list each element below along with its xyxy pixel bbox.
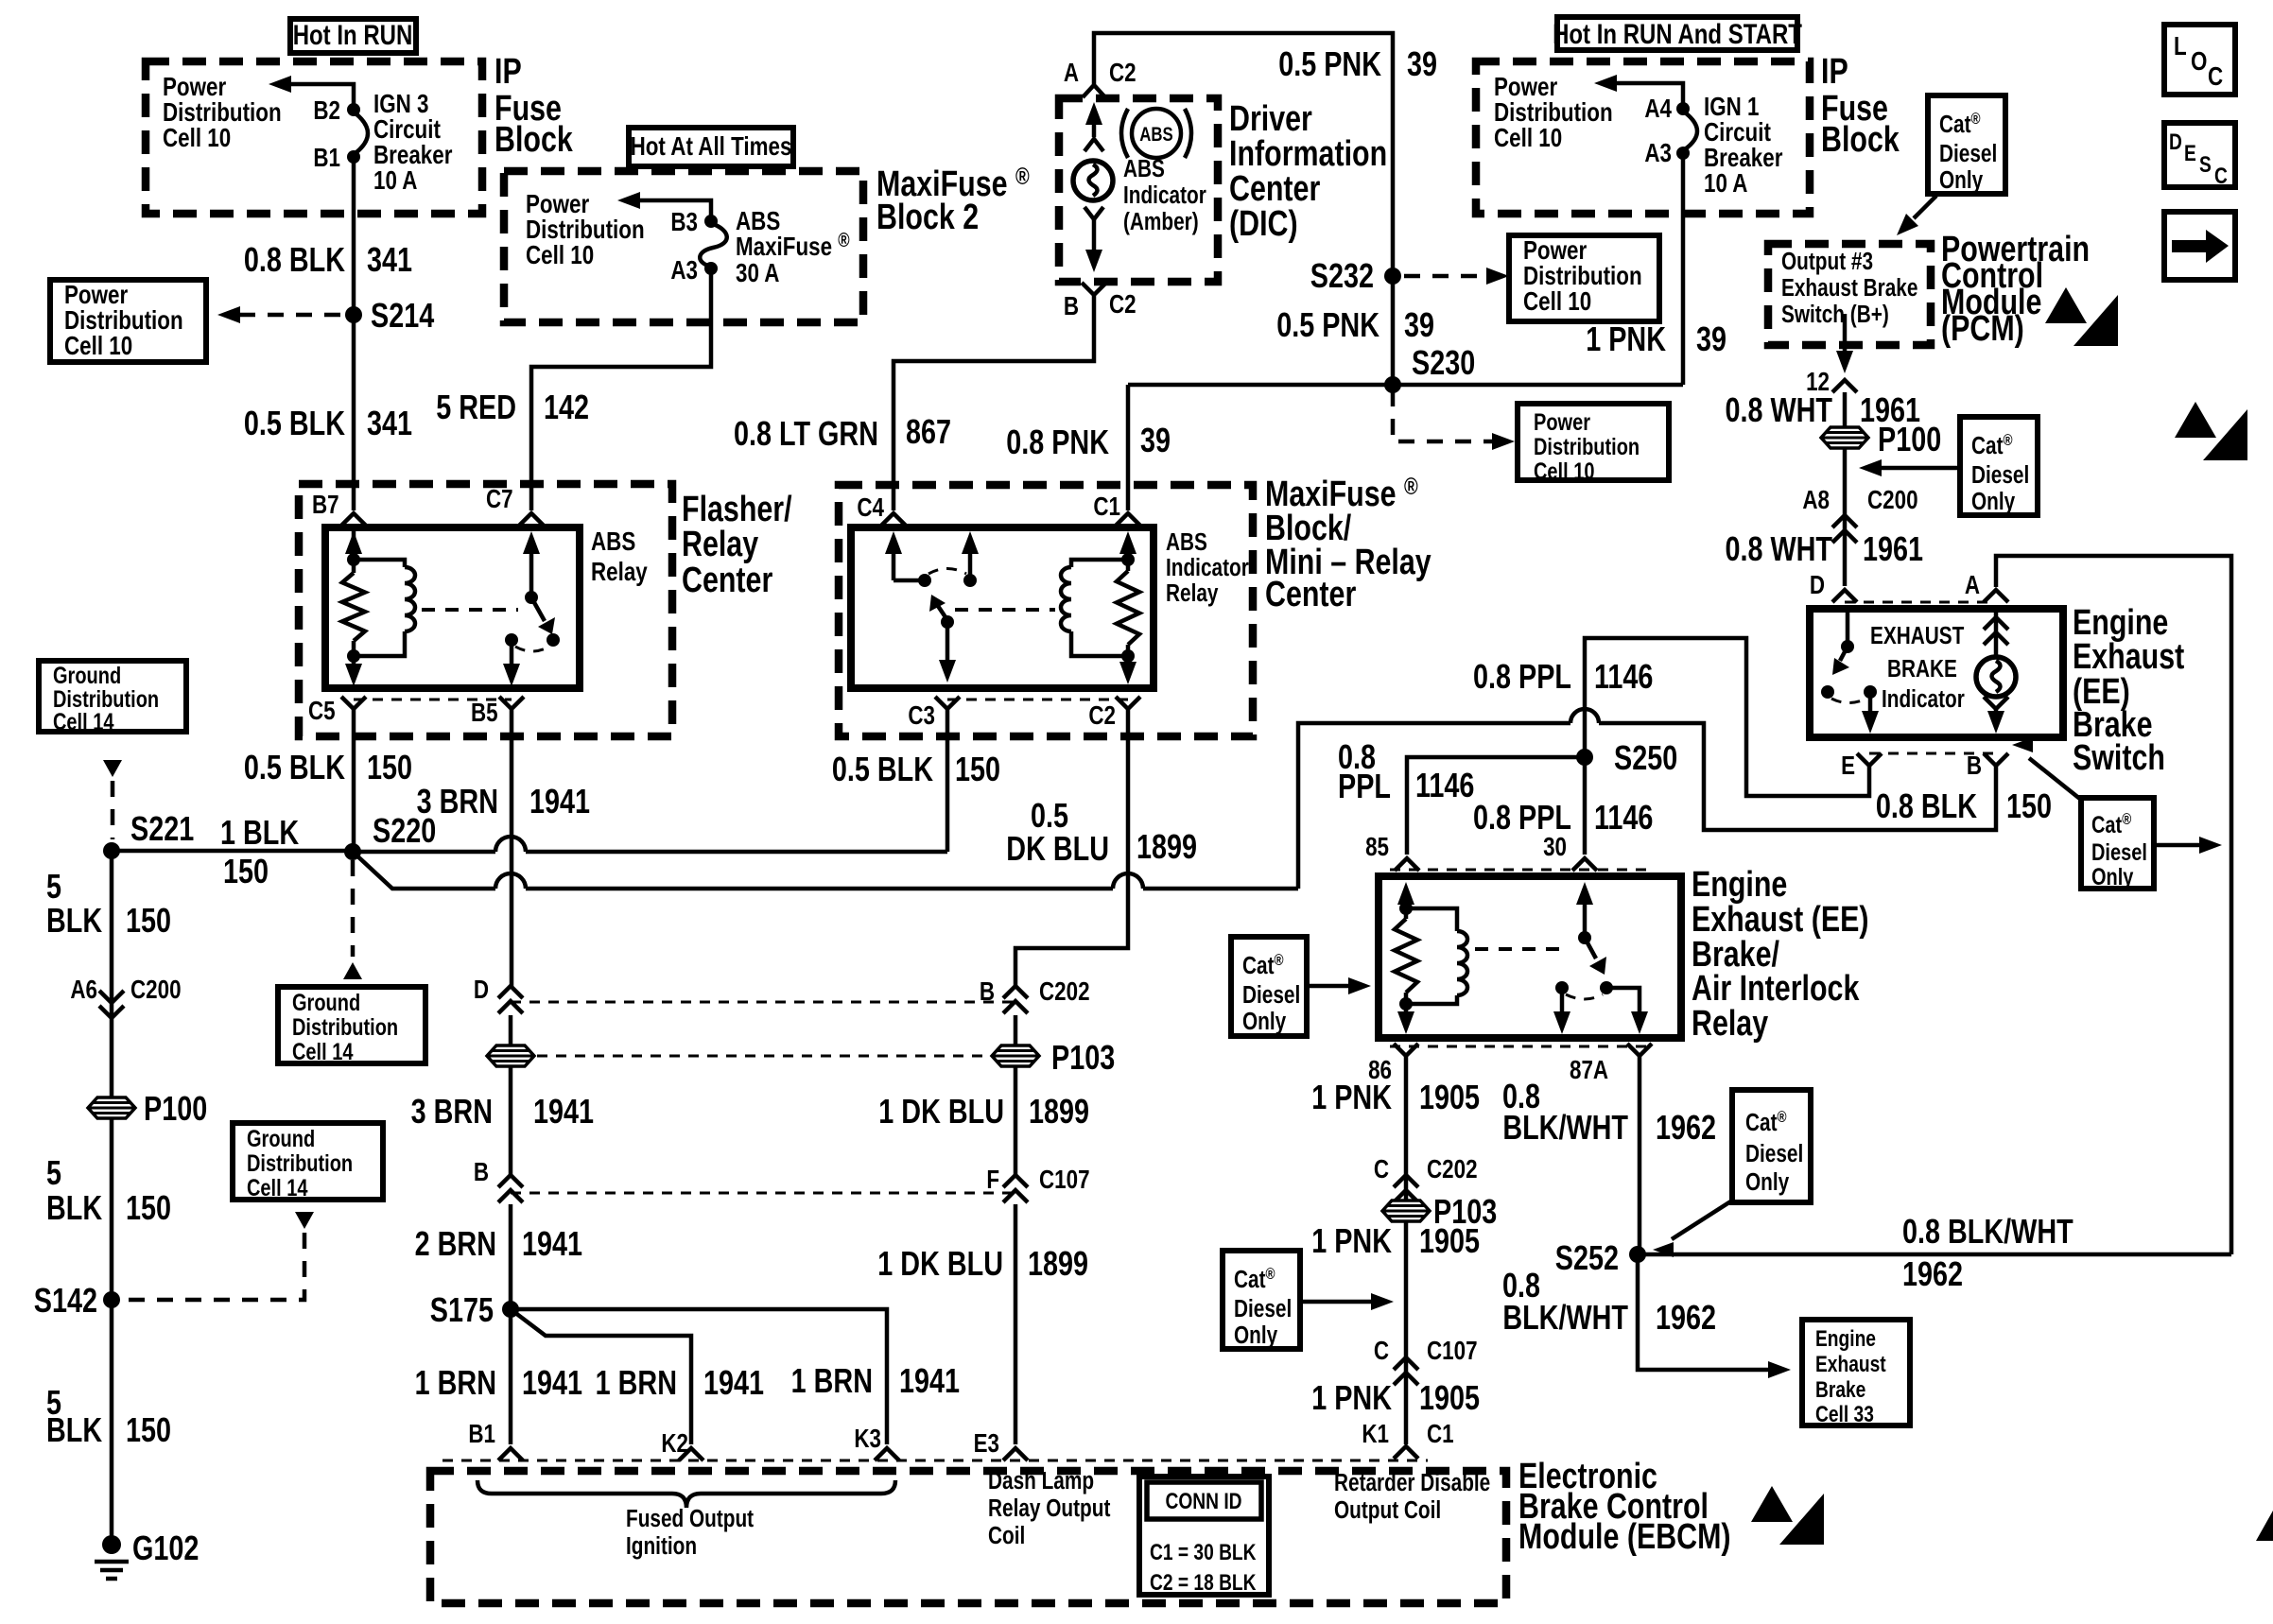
- svg-text:Center: Center: [682, 561, 772, 600]
- svg-text:A3: A3: [1644, 139, 1672, 168]
- svg-text:P100: P100: [144, 1089, 207, 1128]
- svg-text:B1: B1: [468, 1420, 495, 1449]
- label 1 DK BLU 1899 (upper): [878, 1092, 1089, 1131]
- svg-text:Brake: Brake: [1815, 1376, 1865, 1403]
- label 0.5 BLK 150 (C3): [832, 750, 1000, 788]
- svg-text:C1: C1: [1093, 492, 1120, 522]
- svg-text:Switch (B+): Switch (B+): [1781, 301, 1889, 328]
- svg-text:CONN ID: CONN ID: [1165, 1488, 1241, 1514]
- DIC input terminal: [1084, 139, 1103, 151]
- svg-text:Diesel: Diesel: [2091, 839, 2147, 866]
- svg-text:Driver: Driver: [1229, 99, 1312, 139]
- svg-text:A3: A3: [670, 256, 698, 285]
- mini relay coil: [1061, 560, 1128, 656]
- svg-text:Module (EBCM): Module (EBCM): [1518, 1517, 1731, 1557]
- wire A3 down to C7 (ckt 142): [531, 268, 711, 510]
- label 1 DK BLU 1899 (lower): [877, 1244, 1088, 1283]
- PCM dashed box (Output #3 Exhaust Brake Switch): [1768, 244, 1931, 345]
- svg-text:341: 341: [367, 240, 412, 279]
- svg-text:E: E: [1841, 752, 1855, 781]
- mini relay switch input arrow (C4): [885, 531, 925, 580]
- svg-text:0.8 PPL: 0.8 PPL: [1473, 657, 1571, 696]
- svg-text:Relay Output: Relay Output: [988, 1494, 1111, 1522]
- svg-text:ABS: ABS: [1139, 124, 1172, 146]
- svg-text:Dash Lamp: Dash Lamp: [988, 1467, 1094, 1494]
- svg-text:Only: Only: [1939, 166, 1983, 194]
- svg-text:0.5 BLK: 0.5 BLK: [244, 404, 346, 442]
- svg-text:C5: C5: [308, 697, 336, 726]
- switch second contact: [963, 574, 977, 587]
- title IP Fuse Block (left): [495, 52, 574, 160]
- svg-text:Only: Only: [2091, 864, 2134, 890]
- svg-text:1941: 1941: [529, 782, 590, 821]
- svg-text:Switch: Switch: [2073, 738, 2165, 778]
- label 0.8 WHT 1961 (upper): [1725, 390, 1920, 429]
- svg-text:1 PNK: 1 PNK: [1311, 1078, 1392, 1116]
- MaxiFuse Block/Mini-Relay Center dashed box: [839, 485, 1253, 736]
- dashed wire to S221: [111, 781, 115, 839]
- splice S232: [1310, 256, 1401, 295]
- svg-text:3 BRN: 3 BRN: [411, 1092, 493, 1131]
- wire P103 down to pin B (ckt 1941): [509, 1066, 513, 1178]
- svg-text:1 PNK: 1 PNK: [1311, 1221, 1392, 1260]
- pointer Cat box to S252: [1653, 1201, 1732, 1257]
- splice S250: [1576, 738, 1677, 777]
- svg-text:1 BRN: 1 BRN: [415, 1363, 496, 1402]
- svg-text:1 BRN: 1 BRN: [596, 1363, 677, 1402]
- wire from A4 to Power Distribution (arrow): [1594, 75, 1683, 109]
- hop over ckt 1941 (lower bus): [495, 873, 526, 889]
- label ABS Indicator (Amber): [1123, 155, 1206, 235]
- pin A / conn C2 (DIC): [1064, 59, 1136, 97]
- svg-text:1 BLK: 1 BLK: [220, 813, 300, 852]
- svg-text:C1 = 30 BLK: C1 = 30 BLK: [1150, 1539, 1257, 1565]
- Electronic Brake Control Module dashed box: [430, 1471, 1506, 1603]
- svg-text:A8: A8: [1802, 486, 1830, 515]
- interlock switch moving contact: [1600, 981, 1613, 994]
- svg-text:Engine: Engine: [1815, 1325, 1876, 1352]
- svg-text:BLK: BLK: [46, 1188, 103, 1227]
- label Power Distribution Cell 10 (in IP fuse block): [163, 73, 282, 153]
- svg-text:Cell 33: Cell 33: [1815, 1401, 1874, 1427]
- coil output arrow to 86: [1397, 1004, 1414, 1034]
- hop over ckt 1941: [495, 837, 526, 852]
- svg-text:C: C: [1374, 1337, 1389, 1366]
- wire S175 to K3: [511, 1309, 887, 1444]
- svg-text:1941: 1941: [522, 1363, 582, 1402]
- svg-text:1146: 1146: [1415, 766, 1474, 804]
- wire S252 right to ckt 1962 riser: [1638, 1253, 2231, 1257]
- DIC output arrow down: [1085, 219, 1102, 272]
- svg-text:Hot In RUN And START: Hot In RUN And START: [1553, 17, 1802, 49]
- connector line E-B: [1869, 752, 1996, 755]
- switch output to E: [1862, 692, 1879, 734]
- PCM output arrow down: [1836, 314, 1853, 373]
- svg-text:85: 85: [1365, 833, 1389, 862]
- switch output arrow down to B5: [503, 640, 520, 686]
- conn C202 pin B: [980, 977, 1090, 1013]
- svg-text:1899: 1899: [1029, 1092, 1089, 1131]
- svg-text:Exhaust: Exhaust: [1815, 1351, 1886, 1377]
- pin B7: [312, 491, 366, 526]
- pin C1: [1093, 492, 1140, 526]
- svg-text:Exhaust Brake: Exhaust Brake: [1781, 274, 1917, 302]
- wire S250 to pin 85: [1407, 757, 1585, 855]
- IP Fuse Block (right) dashed box: [1476, 61, 1810, 214]
- svg-text:10 A: 10 A: [1704, 169, 1747, 199]
- label 0.8 WHT 1961 (lower): [1725, 529, 1923, 568]
- ground bus S220 to EE switch B (lower): [353, 852, 495, 889]
- svg-text:1146: 1146: [1594, 798, 1653, 837]
- svg-text:B: B: [1967, 752, 1982, 781]
- svg-text:C200: C200: [1867, 486, 1918, 515]
- svg-text:BLK: BLK: [46, 901, 103, 940]
- label Output #3 Exhaust Brake Switch (B+): [1781, 248, 1917, 328]
- conn C107 pin F: [986, 1166, 1089, 1202]
- splice S142: [34, 1281, 120, 1320]
- svg-text:D: D: [2169, 129, 2182, 155]
- svg-text:Ignition: Ignition: [626, 1532, 697, 1560]
- label 0.8 PPL 1146 (upper): [1473, 657, 1653, 696]
- svg-text:C2: C2: [1109, 59, 1136, 88]
- svg-text:E3: E3: [974, 1429, 999, 1459]
- svg-text:Relay: Relay: [682, 525, 758, 564]
- MaxiFuse Block 2 dashed box: [504, 171, 863, 322]
- svg-text:B: B: [980, 977, 995, 1007]
- label IGN 1 Circuit Breaker 10 A: [1704, 93, 1783, 199]
- svg-text:A4: A4: [1644, 95, 1672, 124]
- svg-text:S142: S142: [34, 1281, 97, 1320]
- pin 86: [1368, 1044, 1418, 1085]
- wire B down to P103: [1014, 1015, 1018, 1045]
- title Engine Exhaust (EE) Brake/Air Interlock Relay: [1692, 865, 1868, 1044]
- svg-text:C: C: [1374, 1155, 1389, 1184]
- label 0.5 DK BLU 1899: [1006, 796, 1197, 868]
- splice S252: [1555, 1238, 1646, 1277]
- svg-text:0.8 LT GRN: 0.8 LT GRN: [734, 414, 878, 453]
- svg-text:ABS: ABS: [1123, 155, 1165, 182]
- svg-text:1905: 1905: [1419, 1378, 1480, 1417]
- title Electronic Brake Control Module (EBCM): [1518, 1457, 1731, 1557]
- svg-text:Distribution: Distribution: [292, 1014, 398, 1041]
- label Power Distribution Cell 10 (in right IP fuse block): [1494, 73, 1613, 153]
- label 0.8 BLK 341: [244, 240, 412, 279]
- svg-text:0.8 WHT: 0.8 WHT: [1725, 390, 1832, 429]
- label ABS Relay: [591, 527, 648, 587]
- header box Hot In RUN: [290, 18, 416, 53]
- svg-text:1941: 1941: [533, 1092, 594, 1131]
- svg-text:C202: C202: [1039, 977, 1090, 1007]
- wire P103 down to pin F: [1014, 1066, 1018, 1178]
- svg-text:Fused Output: Fused Output: [626, 1505, 754, 1532]
- connector line EBCM C1/C2: [442, 1460, 1428, 1462]
- wire 87A down to S252 (ckt 1962): [1638, 1056, 1642, 1254]
- node coil bottom: [1399, 997, 1413, 1011]
- hop over ckt 1899: [1113, 873, 1143, 889]
- exhaust brake indicator lamp input terminal: [1984, 613, 2008, 656]
- label ABS Indicator Relay: [1166, 528, 1249, 607]
- pin A3 (IGN1): [1644, 139, 1690, 168]
- label Fused Output Ignition: [626, 1505, 754, 1560]
- arrow Cat box to ckt 1905: [1300, 1293, 1394, 1310]
- wire A3 down to bus (ckt 39): [1681, 153, 1686, 385]
- ref box Ground Distribution Cell 14 (lower): [233, 1123, 383, 1201]
- label 1 PNK 1905 (upper): [1311, 1078, 1480, 1116]
- svg-text:Ground: Ground: [53, 663, 121, 689]
- forward arrow box: [2164, 212, 2235, 280]
- pin B1: [313, 144, 360, 173]
- svg-text:1 PNK: 1 PNK: [1586, 320, 1666, 358]
- label Retarder Disable Output Coil: [1334, 1469, 1490, 1524]
- connector line C107 (B-F): [511, 1192, 1015, 1195]
- ref box Cat Diesel Only (ckt 1905): [1223, 1251, 1300, 1349]
- svg-text:P100: P100: [1878, 420, 1941, 458]
- interlock relay coil: [1406, 908, 1467, 1004]
- svg-text:Cell 10: Cell 10: [526, 241, 594, 270]
- svg-text:0.5 PNK: 0.5 PNK: [1276, 305, 1379, 344]
- pass-through P103 (ckt 1905): [1382, 1192, 1497, 1231]
- title MaxiFuse Block/Mini-Relay Center: [1265, 474, 1431, 614]
- label 5 BLK 150 (lower): [46, 1383, 171, 1449]
- label EXHAUST BRAKE Indicator: [1870, 622, 1965, 713]
- stationary contact arrow down: [1553, 988, 1570, 1034]
- label 0.5 BLK 150: [244, 748, 412, 786]
- svg-text:Diesel: Diesel: [1971, 461, 2029, 489]
- pin C5: [308, 697, 366, 726]
- PCM output terminal pin 12: [1806, 368, 1857, 397]
- title Engine Exhaust (EE) Brake Switch: [2073, 603, 2185, 778]
- svg-text:1899: 1899: [1136, 827, 1197, 866]
- conn C107 pin C: [1374, 1337, 1478, 1385]
- svg-text:O: O: [2191, 47, 2207, 77]
- svg-text:C1: C1: [1427, 1420, 1454, 1449]
- svg-text:Block: Block: [1821, 120, 1900, 160]
- ref box Power Distribution Cell 10 (lower right): [1518, 404, 1669, 485]
- svg-text:1905: 1905: [1419, 1078, 1480, 1116]
- svg-text:1146: 1146: [1594, 657, 1653, 696]
- svg-text:Indicator: Indicator: [1123, 181, 1206, 209]
- svg-text:0.5 PNK: 0.5 PNK: [1278, 44, 1381, 83]
- wire E to S250 (ckt 1146): [1585, 638, 1869, 855]
- svg-text:150: 150: [126, 901, 171, 940]
- svg-text:150: 150: [126, 1410, 171, 1449]
- switch common from D: [1841, 613, 1854, 653]
- relay linkage (dashed): [422, 608, 518, 612]
- switch arm contact node: [941, 615, 954, 629]
- LOC box: [2164, 25, 2235, 95]
- DESC box: [2164, 123, 2235, 189]
- relay switch arm input (C7 side, arrow up): [523, 531, 540, 597]
- svg-text:1962: 1962: [1656, 1108, 1716, 1147]
- svg-text:D: D: [1810, 571, 1825, 600]
- svg-text:Only: Only: [1971, 488, 2015, 515]
- mini relay linkage (dashed): [955, 608, 1055, 612]
- pin B3: [670, 208, 718, 237]
- lamp output terminal and arrow: [1984, 697, 2008, 734]
- brace Fused Output Ignition: [477, 1480, 895, 1508]
- svg-text:EXHAUST: EXHAUST: [1870, 622, 1965, 649]
- arrow Cat box to interlock relay: [1307, 977, 1371, 994]
- interlock switch arm: [1585, 938, 1606, 975]
- svg-text:Center: Center: [1229, 169, 1320, 209]
- svg-text:Cell 14: Cell 14: [247, 1175, 308, 1201]
- label 1 PNK 39: [1586, 320, 1726, 358]
- title MaxiFuse (R) Block 2: [876, 164, 1030, 237]
- pin C3: [908, 697, 960, 731]
- wire S221 down to G102 (ckt 150): [110, 851, 114, 1545]
- splice S220: [344, 811, 436, 860]
- switch output arrow to C3: [939, 622, 956, 682]
- arrow Cat box to pin B wire: [2012, 737, 2081, 800]
- label 0.8 PPL 1146 (pin 30): [1473, 798, 1653, 837]
- svg-text:Hot In RUN: Hot In RUN: [293, 18, 413, 50]
- svg-text:Indicator: Indicator: [1166, 554, 1249, 581]
- connector line 85-30: [1390, 869, 1650, 872]
- fuse ABS MaxiFuse 30 A (S-curve): [700, 223, 727, 267]
- label 1 BRN 1941 (K2): [596, 1363, 764, 1402]
- mini relay switch arm: [929, 595, 947, 620]
- ref box Cat Diesel Only (PCM): [1928, 95, 2005, 194]
- svg-text:Center: Center: [1265, 575, 1356, 614]
- node: coil bottom: [347, 649, 360, 663]
- svg-text:1899: 1899: [1028, 1244, 1088, 1283]
- label Dash Lamp Relay Output Coil: [988, 1467, 1111, 1549]
- label 0.8 BLK/WHT 1962 (S252 drop): [1502, 1266, 1716, 1337]
- svg-text:Information: Information: [1229, 134, 1387, 174]
- ground bus S220 to C3 wire: [353, 850, 495, 855]
- svg-text:Coil: Coil: [988, 1522, 1025, 1549]
- svg-text:Relay: Relay: [1692, 1004, 1768, 1044]
- label 5 BLK 150 (middle): [46, 1153, 171, 1227]
- pin B5: [471, 697, 524, 728]
- label ABS MaxiFuse (R) 30 A: [736, 207, 850, 288]
- CONN ID table: [1139, 1477, 1269, 1596]
- svg-text:1962: 1962: [1656, 1298, 1716, 1337]
- svg-text:BLK/WHT: BLK/WHT: [1502, 1108, 1628, 1147]
- label 0.5 PNK 39 (top): [1278, 44, 1437, 83]
- EXHAUST BRAKE Indicator lamp: [1976, 657, 2016, 697]
- ABS Relay box: [325, 527, 580, 688]
- ABS indicator lamp (amber): [1073, 161, 1113, 200]
- wire S175 to K2: [511, 1309, 691, 1444]
- svg-text:Flasher/: Flasher/: [682, 490, 792, 529]
- label 3 BRN 1941: [417, 782, 590, 821]
- svg-text:C202: C202: [1427, 1155, 1478, 1184]
- interlock switch stationary contact: [1555, 981, 1569, 994]
- svg-text:Ground: Ground: [247, 1126, 315, 1152]
- svg-text:F: F: [986, 1166, 999, 1195]
- svg-text:D: D: [474, 976, 489, 1005]
- svg-text:5: 5: [46, 867, 61, 906]
- pin K3: [854, 1425, 899, 1460]
- node coil bottom: [1121, 649, 1135, 663]
- arrow from Ground Distribution (lower): [295, 1212, 314, 1229]
- svg-text:Cell 10: Cell 10: [1534, 458, 1594, 485]
- svg-text:1941: 1941: [522, 1224, 582, 1263]
- interlock relay resistor: [1395, 908, 1417, 1004]
- C1 input arrow: [1119, 531, 1136, 560]
- svg-text:Only: Only: [1234, 1322, 1277, 1349]
- svg-text:Power: Power: [1534, 409, 1590, 436]
- svg-text:0.8 BLK: 0.8 BLK: [1876, 786, 1978, 825]
- svg-text:39: 39: [1696, 320, 1726, 358]
- DIC output terminal: [1084, 207, 1103, 219]
- wire C3 down to ground bus (ckt 150): [946, 709, 950, 852]
- svg-text:PPL: PPL: [1338, 767, 1391, 805]
- label 3 BRN 1941 (lower): [411, 1092, 594, 1131]
- Flasher/Relay Center dashed box: [299, 484, 672, 736]
- ref box Power Distribution Cell 10 (upper right): [1509, 235, 1659, 321]
- dashed wire S230 to Power Distribution: [1393, 390, 1515, 450]
- ref box Ground Distribution Cell 14 (center): [278, 987, 425, 1065]
- ref box Cat Diesel Only (S252): [1732, 1090, 1811, 1202]
- pass-through P100 (right): [1821, 420, 1941, 458]
- conn C202 pin C: [1374, 1155, 1478, 1202]
- Engine Exhaust (EE) Brake/Air Interlock Relay box: [1379, 876, 1681, 1038]
- label 0.8 LT GRN 867: [734, 412, 951, 453]
- pin B / conn C2 (DIC bottom): [1064, 283, 1136, 321]
- svg-text:Diesel: Diesel: [1242, 981, 1300, 1009]
- svg-text:0.8 PNK: 0.8 PNK: [1006, 423, 1109, 461]
- svg-text:0.5 BLK: 0.5 BLK: [244, 748, 346, 786]
- svg-text:B: B: [1064, 292, 1079, 321]
- circuit breaker IGN 1 (arc): [1685, 112, 1697, 149]
- svg-text:142: 142: [544, 388, 589, 426]
- wire F down to E3 (ckt 1899): [1014, 1204, 1018, 1444]
- wire A up and right edge down to S252 (ckt 1962): [1996, 556, 2231, 1254]
- svg-text:DK BLU: DK BLU: [1006, 829, 1109, 868]
- pin 87A: [1570, 1044, 1652, 1085]
- switch pivot: [525, 591, 538, 604]
- IP Fuse Block (left) dashed box: [146, 61, 482, 214]
- pass-through P103 (ckt 1941): [487, 1045, 534, 1066]
- svg-text:C4: C4: [857, 493, 884, 523]
- ESD symbol (right margin): [2175, 402, 2247, 460]
- svg-text:1962: 1962: [1902, 1254, 1963, 1293]
- svg-text:(DIC): (DIC): [1229, 204, 1298, 244]
- svg-text:MaxiFuse ®: MaxiFuse ®: [736, 230, 850, 261]
- svg-text:39: 39: [1140, 421, 1171, 459]
- node coil top (C1): [1121, 553, 1135, 566]
- switch travel arc: [1831, 699, 1866, 703]
- svg-text:87A: 87A: [1570, 1056, 1608, 1085]
- switch travel arc (dashed): [928, 569, 966, 575]
- svg-text:39: 39: [1407, 44, 1437, 83]
- svg-text:0.8 WHT: 0.8 WHT: [1725, 529, 1832, 568]
- svg-text:S252: S252: [1555, 1238, 1619, 1277]
- svg-text:G102: G102: [132, 1529, 199, 1567]
- Driver Information Center dashed box: [1059, 98, 1218, 282]
- svg-text:Relay: Relay: [591, 558, 648, 587]
- svg-text:K1: K1: [1362, 1420, 1389, 1449]
- svg-text:C200: C200: [130, 976, 182, 1005]
- svg-text:ABS: ABS: [591, 527, 635, 557]
- switch output to 87A: [1606, 988, 1648, 1034]
- svg-text:A: A: [1965, 571, 1980, 600]
- svg-text:30: 30: [1543, 833, 1567, 862]
- mini relay resistor: [1117, 560, 1139, 656]
- svg-text:0.8 BLK: 0.8 BLK: [244, 240, 346, 279]
- interlock relay linkage (dashed): [1475, 947, 1570, 951]
- svg-text:Diesel: Diesel: [1745, 1140, 1803, 1167]
- svg-text:BLK/WHT: BLK/WHT: [1502, 1298, 1628, 1337]
- svg-text:(PCM): (PCM): [1941, 309, 2024, 349]
- pin D (EE brake switch): [1810, 571, 1857, 602]
- label 2 BRN 1941: [415, 1224, 582, 1263]
- pin C4: [857, 493, 906, 526]
- svg-text:Retarder Disable: Retarder Disable: [1334, 1469, 1490, 1496]
- svg-text:150: 150: [955, 750, 1000, 788]
